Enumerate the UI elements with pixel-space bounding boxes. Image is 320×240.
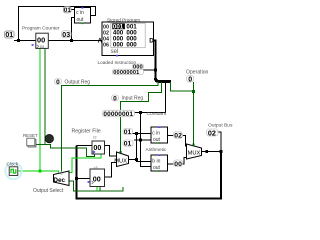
adder U3 (arithmetic add, c in/out) [151, 126, 168, 143]
mux M2 (result select) [187, 144, 202, 160]
wire: r3 enable stub up [96, 187, 98, 191]
node: junction constant tap [139, 111, 142, 114]
wire: A-operand vertical to both alu inputs [137, 134, 152, 162]
svg-text:D: D [149, 38, 154, 45]
wire: reset run to register file [45, 145, 94, 157]
wire: right mux output to output bus [202, 151, 222, 153]
decoder D1 (output select) [53, 171, 69, 186]
svg-text:out: out [77, 17, 85, 23]
svg-text:02: 02 [174, 133, 182, 140]
probe output-reg bit (0) [55, 79, 62, 86]
wire: PC Q to ROM A [48, 40, 102, 42]
wire: splitter leg constant field (black) [141, 82, 166, 167]
svg-text:00: 00 [93, 175, 101, 184]
probe loaded instruction binary 00000001 [113, 69, 144, 76]
svg-text:00: 00 [174, 161, 182, 168]
wire: main PC bus left segment [14, 40, 36, 42]
subtractor U4 (b in/out) [151, 154, 168, 171]
wire: loaded instruction probe stub [143, 69, 156, 71]
wire: decoder out1 to r3 enable [69, 181, 123, 191]
wire: reset button stub [36, 144, 45, 146]
pin P1 (bus value 01) [5, 31, 15, 39]
probe constant 00000001 [103, 110, 135, 118]
splitter SP1 bar [156, 78, 172, 82]
node: junction loaded-instruction tap [154, 69, 157, 72]
wire: clock horizontal [19, 171, 59, 173]
svg-text:00000001: 00000001 [103, 111, 133, 118]
svg-text:Stored Program: Stored Program [107, 18, 140, 23]
svg-text:02: 02 [208, 128, 216, 137]
register r3 [88, 169, 105, 187]
svg-text:0: 0 [56, 79, 60, 86]
svg-text:00: 00 [37, 36, 45, 45]
svg-text:c in: c in [152, 131, 160, 137]
wire: b-box output to right mux in2 [168, 158, 187, 165]
node: junction mux out [135, 158, 138, 161]
probe alu-b lower 01 [123, 140, 133, 148]
register PC (program counter) [32, 33, 49, 49]
svg-text:Input Reg: Input Reg [122, 96, 144, 102]
svg-text:b in: b in [152, 159, 160, 165]
svg-text:Operation: Operation [186, 70, 209, 76]
wire: r2 D input stub [77, 145, 93, 147]
probe PC value 03 [62, 31, 72, 39]
svg-text:01: 01 [5, 32, 13, 39]
svg-text:000: 000 [113, 41, 124, 48]
wire: splitter leg output-reg bit (dark green long line) [62, 82, 159, 172]
node: junction constant to c-box B [139, 139, 142, 142]
wire: c-box B input stub [134, 139, 151, 141]
svg-text:MUX: MUX [114, 158, 127, 164]
wire: r2 Q to left mux in1 [105, 146, 117, 157]
wire: ROM D output to splitter [154, 41, 156, 80]
ROM U2 (stored program) [98, 22, 155, 56]
svg-text:03: 03 [62, 32, 70, 39]
svg-text:Output Reg: Output Reg [65, 80, 91, 86]
wire: splitter leg operation bit [171, 82, 194, 91]
node: junction clock [38, 170, 41, 173]
node: junction r3 write tap [75, 177, 78, 180]
pin P2 (adder increment input 01) [64, 7, 72, 15]
wire: splitter leg input-reg bit to left mux select [121, 82, 162, 152]
wire: adder U1 input A stub [71, 9, 75, 11]
wire: operation select vertical [193, 82, 195, 144]
svg-text:RESET: RESET [23, 133, 38, 138]
node: junction operation select [192, 90, 195, 93]
register r2 [92, 141, 105, 154]
button RESET [27, 138, 36, 147]
svg-text:01: 01 [124, 129, 132, 136]
svg-text:0: 0 [188, 77, 192, 84]
svg-text:00000001: 00000001 [113, 70, 139, 76]
wire: r3 Q to left mux in2 [105, 163, 117, 178]
svg-text:Output Select: Output Select [33, 188, 64, 194]
wire: c-box output to right mux in1 [168, 136, 187, 147]
svg-text:01: 01 [64, 7, 71, 14]
probe input-reg bit (0) [112, 95, 119, 102]
svg-text:A: A [98, 38, 103, 45]
svg-text:MUX: MUX [188, 150, 201, 156]
node: junction mux2 output [205, 150, 208, 153]
mux M1 (register select) [114, 151, 128, 167]
svg-text:Constant: Constant [147, 111, 167, 117]
wire: output bus probe stub [218, 132, 221, 152]
node: junction adder B tap [70, 39, 73, 42]
clock CLK1 with halo [5, 163, 21, 179]
svg-text:00: 00 [93, 143, 101, 152]
svg-text:Dec: Dec [53, 177, 65, 184]
wire: reset vertical from PC [44, 48, 46, 144]
svg-text:Arithmetic: Arithmetic [146, 147, 167, 152]
probe loaded instruction hex 000 [133, 64, 144, 71]
wire: r3 D input stub [77, 178, 91, 180]
wire: b-box B input stub [141, 166, 152, 168]
probe output bus 02 [207, 128, 219, 137]
svg-text:sel: sel [111, 49, 119, 55]
probe adder result 02 [174, 132, 183, 140]
svg-text:000: 000 [126, 41, 137, 48]
node: junction A-operand top [135, 132, 138, 135]
svg-text:Loaded Instruction: Loaded Instruction [98, 60, 137, 65]
wire: adder U1 feedback top loop [19, 7, 96, 41]
wire: constant probe stub [135, 112, 141, 114]
wire: c-box A input [133, 133, 152, 135]
wire: decoder out0 to r2 enable [69, 154, 101, 173]
probe operation bit (0) [187, 75, 194, 83]
wire: r3 clock stub up [99, 187, 101, 191]
svg-text:06: 06 [103, 42, 109, 48]
svg-text:Clock: Clock [7, 162, 19, 167]
wire: left mux output [129, 159, 137, 161]
node: junction PC bus / top loop [17, 39, 20, 42]
pin P3 (reset state output, dark) [45, 134, 53, 142]
probe alu-a upper 01 [123, 128, 133, 136]
svg-text:Program Counter: Program Counter [22, 26, 60, 32]
svg-text:c in: c in [76, 10, 84, 16]
wire: adder U1 input B vertical [72, 18, 75, 41]
node: junction output bus [220, 150, 223, 153]
svg-text:D8: D8 [40, 45, 44, 49]
probe subtractor result 00 [174, 160, 183, 168]
adder U1 (PC incrementer) [75, 7, 91, 24]
wire: feedback bus to register file [77, 146, 222, 199]
svg-text:0: 0 [113, 95, 117, 102]
svg-text:01: 01 [124, 141, 132, 148]
wire: clock vertical to PC [39, 48, 41, 171]
svg-text:0: 0 [61, 172, 63, 176]
